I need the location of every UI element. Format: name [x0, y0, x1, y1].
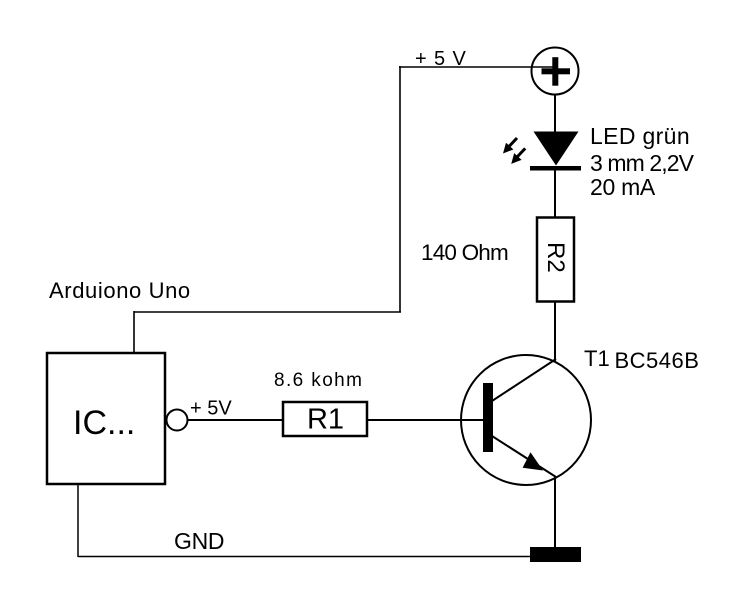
svg-text:IC...: IC... — [73, 404, 135, 442]
wire top +5V horizontal — [399, 66, 553, 68]
label LED value — [590, 123, 695, 200]
svg-text:20 mA: 20 mA — [590, 174, 656, 200]
wire vertical into IC top — [133, 311, 135, 353]
svg-text:Arduiono Uno: Arduiono Uno — [49, 278, 191, 303]
wire R2 to collector — [554, 301, 556, 361]
svg-text:LED grün: LED grün — [590, 123, 690, 149]
LED D1 — [530, 132, 581, 171]
wire emitter to ground — [554, 477, 556, 549]
emitter arrow — [523, 452, 543, 470]
wire IC bottom down — [77, 484, 79, 557]
wire GND horizontal — [78, 556, 530, 558]
pin circle — [167, 410, 188, 431]
svg-text:R2: R2 — [542, 242, 569, 273]
collector line — [492, 359, 556, 401]
svg-text:T1: T1 — [584, 346, 610, 371]
ground symbol — [530, 547, 581, 562]
IC box — [47, 353, 165, 484]
wire horizontal to IC top — [134, 311, 401, 313]
transistor base bar — [483, 383, 493, 452]
wire power to LED — [554, 95, 556, 134]
svg-text:140 Ohm: 140 Ohm — [421, 240, 508, 265]
resistor R1 — [283, 402, 367, 436]
power supply symbol + — [532, 48, 579, 95]
svg-text:GND: GND — [174, 528, 224, 554]
wire LED to R2 — [554, 170, 556, 218]
transistor Q1 circle — [461, 355, 591, 485]
svg-text:R1: R1 — [307, 404, 344, 436]
wire R1 to base — [367, 419, 483, 421]
svg-text:8.6 kohm: 8.6 kohm — [274, 370, 363, 391]
svg-text:+ 5V: + 5V — [190, 398, 232, 420]
LED light arrow 2 — [511, 148, 525, 164]
emitter line — [492, 436, 556, 477]
wire left vertical from +5V corner — [399, 66, 401, 312]
wire pin to R1 — [188, 419, 283, 421]
svg-text:BC546B: BC546B — [615, 348, 700, 373]
LED light arrow 1 — [503, 138, 517, 154]
resistor R2 — [537, 218, 574, 302]
svg-text:3 mm 2,2V: 3 mm 2,2V — [590, 150, 695, 176]
label T1 BC546B — [584, 346, 699, 373]
